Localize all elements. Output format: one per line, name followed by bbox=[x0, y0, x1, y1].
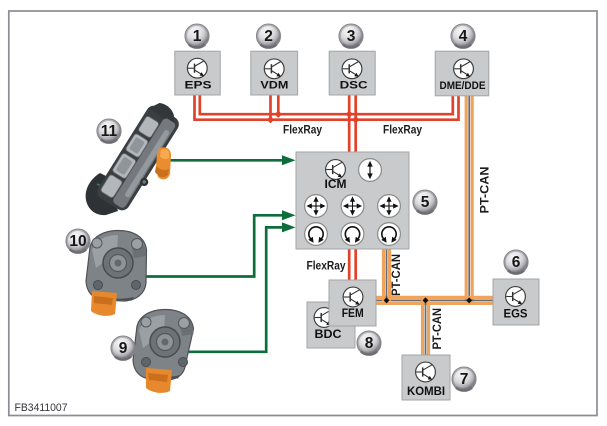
svg-text:4: 4 bbox=[459, 28, 468, 45]
svg-text:5: 5 bbox=[421, 194, 430, 211]
svg-text:2: 2 bbox=[264, 28, 273, 45]
svg-text:9: 9 bbox=[119, 340, 128, 357]
svg-text:PT-CAN: PT-CAN bbox=[432, 308, 444, 350]
svg-text:FEM: FEM bbox=[342, 308, 364, 320]
svg-text:8: 8 bbox=[365, 335, 374, 352]
svg-text:VDM: VDM bbox=[260, 79, 288, 91]
svg-text:PT-CAN: PT-CAN bbox=[391, 254, 403, 296]
svg-text:6: 6 bbox=[512, 254, 521, 271]
svg-text:FlexRay: FlexRay bbox=[283, 125, 323, 137]
svg-text:7: 7 bbox=[460, 371, 469, 388]
svg-text:DSC: DSC bbox=[340, 79, 368, 91]
svg-text:BDC: BDC bbox=[315, 327, 342, 341]
svg-text:1: 1 bbox=[193, 28, 202, 45]
svg-text:11: 11 bbox=[101, 123, 118, 140]
svg-text:DME/DDE: DME/DDE bbox=[440, 80, 486, 92]
svg-text:FlexRay: FlexRay bbox=[307, 261, 347, 273]
svg-text:10: 10 bbox=[69, 233, 86, 250]
svg-text:FB3411007: FB3411007 bbox=[15, 402, 68, 414]
svg-text:EPS: EPS bbox=[185, 79, 212, 91]
svg-text:EGS: EGS bbox=[504, 309, 528, 321]
svg-text:3: 3 bbox=[347, 28, 356, 45]
svg-text:ICM: ICM bbox=[325, 179, 347, 191]
svg-text:KOMBI: KOMBI bbox=[407, 386, 445, 398]
svg-text:FlexRay: FlexRay bbox=[383, 125, 423, 137]
svg-text:PT-CAN: PT-CAN bbox=[480, 167, 492, 214]
